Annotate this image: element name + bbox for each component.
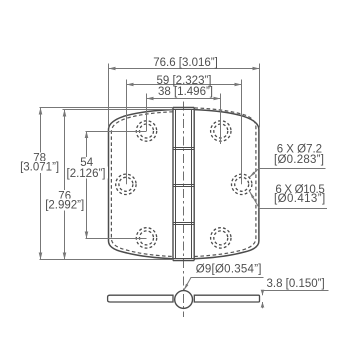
svg-text:[2.126”]: [2.126”] (67, 168, 106, 180)
leader 6xD10.5 (250, 192, 327, 209)
dim 76.6 ext left (108, 64, 110, 128)
arrow 76 bottom (63, 253, 67, 260)
dim 76.6 ext right (259, 64, 261, 128)
dim 59 line (127, 84, 242, 86)
dim 54 line (86, 131, 88, 239)
arrow 59 left (127, 83, 134, 87)
dim 76.6 line (109, 68, 260, 70)
arrow 76.6 right (253, 67, 260, 71)
svg-text:[3.071”]: [3.071”] (20, 162, 59, 174)
label 78 (31, 153, 48, 165)
arrow 76.6 left (109, 67, 116, 71)
hole bottom-left (136, 228, 156, 248)
dim 59 ext left (126, 80, 128, 185)
arrow 38 right (214, 97, 221, 101)
dim 54 ext top (86, 131, 147, 133)
arrow 3.8 top (261, 290, 265, 296)
hinge leaf right hidden edge (dashed) (194, 108, 256, 257)
dim 38 ext right (220, 94, 222, 145)
arrow 78 top (39, 108, 43, 115)
leader 6xD7.2 (249, 169, 325, 178)
dim 78 ext top (40, 107, 174, 109)
svg-text:3.8 [0.150”]: 3.8 [0.150”] (267, 278, 325, 290)
arrow 38 left (147, 97, 154, 101)
wire centerline vertical through barrel (183, 102, 185, 318)
dim 3.8 leader (263, 291, 329, 309)
dim 59 ext right (241, 80, 243, 185)
hinge leaf left outline (109, 110, 174, 259)
svg-text:Ø9[Ø0.354”]: Ø9[Ø0.354”] (196, 263, 262, 275)
label 54 (78, 157, 95, 169)
barrel inner (173, 110, 194, 259)
svg-text:38 [1.496”]: 38 [1.496”] (158, 86, 213, 98)
side view left leaf (108, 295, 173, 302)
arrow leader D9 (184, 284, 188, 291)
side view right leaf (194, 295, 259, 302)
arrow 78 bottom (39, 253, 43, 260)
svg-text:[Ø0.283”]: [Ø0.283”] (274, 154, 324, 166)
dim 76 line (64, 110, 66, 260)
hole bottom-right (211, 228, 231, 248)
svg-text:[Ø0.413”]: [Ø0.413”] (274, 193, 326, 205)
arrow leader 10.5 (250, 192, 255, 199)
arrow 3.8 bottom (261, 302, 265, 308)
dim 76 ext top (63, 109, 173, 111)
hole top-right (211, 121, 231, 141)
hole top-left (116, 121, 252, 248)
hinge leaf right outline (194, 110, 259, 259)
knuckle joint 1 (173, 148, 194, 150)
arrow 54 top (85, 131, 89, 138)
svg-text:76.6 [3.016”]: 76.6 [3.016”] (153, 57, 218, 69)
side view barrel circle (175, 291, 193, 309)
label 76 (56, 190, 73, 202)
arrow 54 bottom (85, 232, 89, 239)
arrow leader 7.2 (249, 172, 255, 178)
svg-text:59 [2.323”]: 59 [2.323”] (157, 75, 212, 87)
knuckle joint 2 (173, 185, 194, 187)
knuckle joint 3 (173, 223, 194, 225)
hinge leaf left hidden edge (dashed) (111, 112, 173, 257)
dim 38 ext left (146, 94, 148, 132)
dim 54 ext bottom (86, 238, 147, 240)
dim 78 line (40, 108, 42, 260)
dim bottom ext (40, 259, 174, 261)
barrel outer (173, 108, 194, 261)
dim 38 line (147, 98, 221, 100)
leader D9 (184, 278, 264, 291)
svg-text:[2.992”]: [2.992”] (45, 199, 84, 211)
hole mid-right (232, 174, 252, 194)
arrow 76 top (63, 110, 67, 117)
arrow 59 right (235, 83, 242, 87)
hole mid-left (116, 174, 136, 194)
